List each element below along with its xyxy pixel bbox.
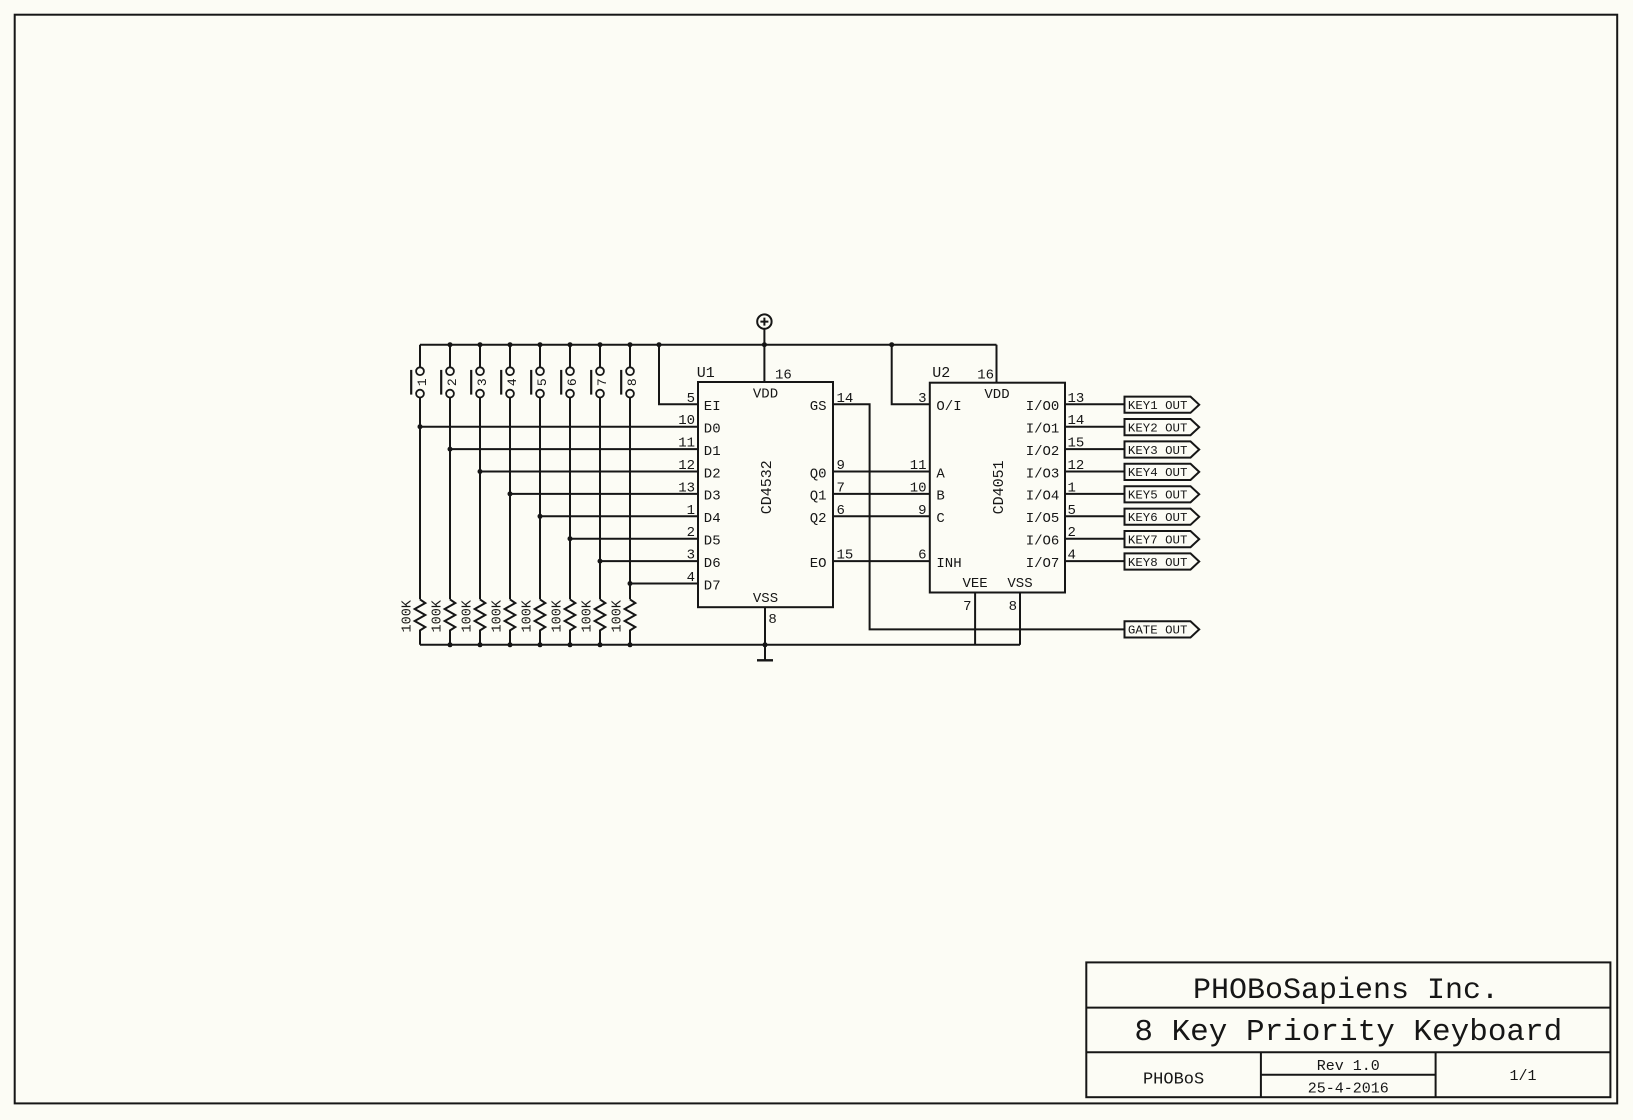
- wire U2 VDD pin16 stub: [996, 345, 998, 383]
- output flag KEY6 OUT: [1125, 509, 1200, 525]
- svg-text:6: 6: [918, 548, 926, 564]
- output flag KEY3 OUT: [1125, 441, 1200, 457]
- resistor R1 100K: [401, 599, 426, 645]
- svg-text:A: A: [936, 466, 945, 482]
- wire I/O7 to KEY8: [1065, 560, 1125, 562]
- wire I/O0 to KEY1: [1065, 403, 1125, 405]
- svg-text:INH: INH: [936, 556, 961, 572]
- wire U2 VSS pin8 stub: [1019, 593, 1021, 645]
- resistor R7 100K: [581, 599, 606, 645]
- junction top rail col 3: [478, 342, 483, 347]
- svg-text:Q0: Q0: [810, 466, 827, 482]
- wire D0 net from SW1 to U1: [420, 426, 698, 428]
- svg-text:EO: EO: [810, 556, 827, 572]
- svg-text:O/I: O/I: [936, 399, 961, 415]
- svg-text:VSS: VSS: [1007, 576, 1032, 592]
- wire top power rail: [420, 344, 997, 346]
- svg-text:100K: 100K: [491, 599, 506, 632]
- svg-text:8: 8: [1009, 599, 1017, 615]
- svg-text:3: 3: [918, 391, 926, 407]
- svg-text:100K: 100K: [581, 599, 596, 632]
- svg-text:D4: D4: [704, 511, 721, 527]
- junction SW7 / D6: [598, 559, 603, 564]
- svg-text:16: 16: [775, 367, 792, 383]
- svg-text:VDD: VDD: [984, 387, 1009, 403]
- svg-text:Q1: Q1: [810, 489, 827, 505]
- svg-text:KEY6 OUT: KEY6 OUT: [1128, 511, 1188, 525]
- svg-text:100K: 100K: [551, 599, 566, 632]
- svg-text:KEY8 OUT: KEY8 OUT: [1128, 556, 1188, 570]
- svg-text:D5: D5: [704, 534, 721, 550]
- svg-text:1/1: 1/1: [1509, 1068, 1536, 1085]
- junction top rail / power: [762, 342, 767, 347]
- svg-text:7: 7: [963, 599, 971, 615]
- svg-text:1: 1: [687, 503, 695, 519]
- svg-text:VSS: VSS: [753, 591, 778, 607]
- junction bottom rail col 4: [508, 642, 513, 647]
- wire U1 VSS pin8 stub: [764, 607, 766, 645]
- switch SW2: [441, 345, 460, 600]
- svg-text:VEE: VEE: [962, 576, 987, 592]
- switch SW7: [591, 345, 610, 600]
- junction top rail col 6: [568, 342, 573, 347]
- svg-text:8: 8: [625, 378, 640, 386]
- svg-text:VDD: VDD: [753, 387, 778, 403]
- svg-text:100K: 100K: [431, 599, 446, 632]
- svg-text:EI: EI: [704, 399, 721, 415]
- svg-text:100K: 100K: [461, 599, 476, 632]
- svg-text:I/O0: I/O0: [1026, 399, 1060, 415]
- wire I/O1 to KEY2: [1065, 426, 1125, 428]
- switch SW1: [411, 345, 430, 600]
- wire U1 VDD pin16 stub: [763, 345, 765, 382]
- resistor R5 100K: [521, 599, 546, 645]
- svg-text:U2: U2: [932, 365, 950, 382]
- switch SW8: [621, 345, 640, 600]
- svg-text:100K: 100K: [611, 599, 626, 632]
- junction bottom rail col 6: [568, 642, 573, 647]
- IC U2 CD4051 body: [930, 383, 1065, 593]
- junction SW1 / D0: [418, 424, 423, 429]
- junction bottom rail col 2: [448, 642, 453, 647]
- output flag KEY1 OUT: [1125, 397, 1200, 413]
- svg-text:9: 9: [918, 503, 926, 519]
- svg-text:I/O1: I/O1: [1026, 422, 1060, 438]
- svg-text:KEY7 OUT: KEY7 OUT: [1128, 533, 1188, 547]
- svg-text:KEY2 OUT: KEY2 OUT: [1128, 421, 1188, 435]
- wire Q0-A: [833, 471, 930, 473]
- junction SW2 / D1: [448, 447, 453, 452]
- junction top rail col 5: [538, 342, 543, 347]
- svg-text:11: 11: [910, 458, 927, 474]
- junction bottom rail col 5: [538, 642, 543, 647]
- svg-text:I/O4: I/O4: [1026, 489, 1060, 505]
- wire I/O2 to KEY3: [1065, 448, 1125, 450]
- svg-text:D7: D7: [704, 578, 721, 594]
- svg-text:3: 3: [687, 548, 695, 564]
- wire GS to GATE OUT: [833, 404, 1125, 629]
- output flag KEY4 OUT: [1125, 464, 1200, 480]
- svg-text:PHOBoS: PHOBoS: [1143, 1071, 1204, 1090]
- svg-text:U1: U1: [697, 365, 715, 382]
- svg-text:2: 2: [445, 378, 460, 386]
- svg-text:8 Key Priority Keyboard: 8 Key Priority Keyboard: [1134, 1015, 1562, 1050]
- junction top rail / EI: [657, 342, 662, 347]
- svg-text:D1: D1: [704, 444, 721, 460]
- wire O/I net: [892, 345, 930, 405]
- wire I/O6 to KEY7: [1065, 538, 1125, 540]
- svg-text:5: 5: [535, 378, 550, 386]
- junction SW8 / D7: [628, 581, 633, 586]
- svg-text:I/O3: I/O3: [1026, 466, 1060, 482]
- junction bottom rail col 8: [628, 642, 633, 647]
- svg-text:8: 8: [768, 612, 776, 628]
- output flag GATE OUT: [1125, 621, 1200, 637]
- switch SW5: [531, 345, 550, 600]
- resistor R6 100K: [551, 599, 576, 645]
- svg-text:CD4051: CD4051: [991, 460, 1008, 514]
- svg-text:C: C: [936, 511, 944, 527]
- junction SW5 / D4: [538, 514, 543, 519]
- output flag KEY8 OUT: [1125, 553, 1200, 569]
- wire D7 net from SW8 to U1: [630, 583, 698, 585]
- wire D2 net from SW3 to U1: [480, 471, 698, 473]
- svg-text:4: 4: [505, 378, 520, 386]
- junction ground rail / U1 VSS: [763, 642, 768, 647]
- svg-text:KEY4 OUT: KEY4 OUT: [1128, 466, 1188, 480]
- svg-text:KEY1 OUT: KEY1 OUT: [1128, 399, 1188, 413]
- svg-text:GATE OUT: GATE OUT: [1128, 624, 1188, 638]
- svg-text:D0: D0: [704, 422, 721, 438]
- output flag KEY5 OUT: [1125, 486, 1200, 502]
- resistor R4 100K: [491, 599, 516, 645]
- svg-text:2: 2: [687, 525, 695, 541]
- svg-text:Rev 1.0: Rev 1.0: [1317, 1058, 1380, 1075]
- wire D4 net from SW5 to U1: [540, 515, 698, 517]
- junction top rail col 4: [508, 342, 513, 347]
- svg-text:1: 1: [415, 378, 430, 386]
- wire D1 net from SW2 to U1: [450, 448, 698, 450]
- junction SW4 / D3: [508, 491, 513, 496]
- svg-text:CD4532: CD4532: [759, 460, 776, 514]
- svg-text:25-4-2016: 25-4-2016: [1308, 1081, 1389, 1098]
- wire Q2-C: [833, 515, 930, 517]
- svg-text:I/O6: I/O6: [1026, 534, 1060, 550]
- power symbol +V: [757, 314, 771, 344]
- svg-text:D6: D6: [704, 556, 721, 572]
- wire Q1-B: [833, 493, 930, 495]
- wire I/O3 to KEY4: [1065, 471, 1125, 473]
- wire I/O4 to KEY5: [1065, 493, 1125, 495]
- wire EI net: [659, 345, 698, 405]
- svg-text:10: 10: [910, 480, 927, 496]
- svg-text:11: 11: [678, 436, 695, 452]
- output flag KEY7 OUT: [1125, 531, 1200, 547]
- resistor R2 100K: [431, 599, 456, 645]
- junction top rail col 8: [628, 342, 633, 347]
- svg-text:12: 12: [678, 458, 695, 474]
- junction bottom rail col 3: [478, 642, 483, 647]
- svg-text:I/O5: I/O5: [1026, 511, 1060, 527]
- svg-text:Q2: Q2: [810, 511, 827, 527]
- ground symbol: [757, 645, 773, 661]
- wire D5 net from SW6 to U1: [570, 538, 698, 540]
- svg-text:3: 3: [475, 378, 490, 386]
- title block: [1086, 962, 1610, 1097]
- svg-text:7: 7: [595, 378, 610, 386]
- junction top rail / O-I: [889, 342, 894, 347]
- junction bottom rail col 7: [598, 642, 603, 647]
- svg-text:KEY5 OUT: KEY5 OUT: [1128, 489, 1188, 503]
- wire bottom ground rail: [420, 644, 1020, 646]
- switch SW6: [561, 345, 580, 600]
- svg-text:16: 16: [977, 367, 994, 383]
- svg-text:13: 13: [678, 480, 695, 496]
- wire I/O5 to KEY6: [1065, 515, 1125, 517]
- svg-text:PHOBoSapiens Inc.: PHOBoSapiens Inc.: [1193, 974, 1499, 1008]
- svg-text:10: 10: [678, 413, 695, 429]
- svg-text:I/O2: I/O2: [1026, 444, 1060, 460]
- junction SW3 / D2: [478, 469, 483, 474]
- svg-text:I/O7: I/O7: [1026, 556, 1060, 572]
- svg-text:100K: 100K: [521, 599, 536, 632]
- svg-text:KEY3 OUT: KEY3 OUT: [1128, 444, 1188, 458]
- svg-text:B: B: [936, 489, 944, 505]
- junction top rail col 2: [448, 342, 453, 347]
- wire D3 net from SW4 to U1: [510, 493, 698, 495]
- output flag KEY2 OUT: [1125, 419, 1200, 435]
- svg-text:100K: 100K: [401, 599, 416, 632]
- svg-text:6: 6: [565, 378, 580, 386]
- wire U2 VEE pin7 stub: [974, 593, 976, 645]
- svg-text:4: 4: [687, 570, 695, 586]
- resistor R8 100K: [611, 599, 636, 645]
- resistor R3 100K: [461, 599, 486, 645]
- svg-text:D3: D3: [704, 489, 721, 505]
- IC U1 CD4532 body: [698, 382, 833, 607]
- svg-text:GS: GS: [810, 399, 827, 415]
- switch SW4: [501, 345, 520, 600]
- svg-text:D2: D2: [704, 466, 721, 482]
- junction SW6 / D5: [568, 536, 573, 541]
- switch SW3: [471, 345, 490, 600]
- svg-text:5: 5: [687, 391, 695, 407]
- wire D6 net from SW7 to U1: [600, 560, 698, 562]
- junction top rail col 7: [598, 342, 603, 347]
- wire EO-INH: [833, 560, 930, 562]
